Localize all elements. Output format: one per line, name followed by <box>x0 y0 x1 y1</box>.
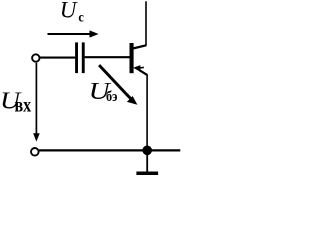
svg-text:c: c <box>78 10 84 25</box>
ground bar <box>136 172 158 176</box>
wire emitter lead <box>146 75 148 151</box>
arrow Uvx input voltage <box>33 63 40 142</box>
arrow Uc direction <box>48 30 99 37</box>
transistor collector diagonal <box>133 45 146 48</box>
ground stub <box>146 154 148 172</box>
svg-text:вх: вх <box>15 96 32 117</box>
svg-text:U: U <box>60 0 78 23</box>
svg-text:бэ: бэ <box>106 89 117 105</box>
label Uvx (input voltage) <box>0 89 31 117</box>
node input bottom terminal <box>31 148 39 156</box>
junction emitter to rail <box>142 146 152 156</box>
arrow Ube base to emitter <box>99 65 137 105</box>
label Uc (capacitor voltage) <box>60 0 84 25</box>
node input top terminal <box>32 54 39 61</box>
wire bottom rail <box>39 149 180 151</box>
wire capacitor to base <box>85 56 130 58</box>
label Ube (base-emitter voltage) <box>89 79 118 105</box>
wire input to capacitor <box>40 57 76 59</box>
transistor VT1 base bar <box>130 43 134 73</box>
wire collector lead <box>145 1 147 46</box>
transistor emitter diagonal with PNP arrow <box>133 65 147 75</box>
capacitor C1 <box>75 42 85 73</box>
